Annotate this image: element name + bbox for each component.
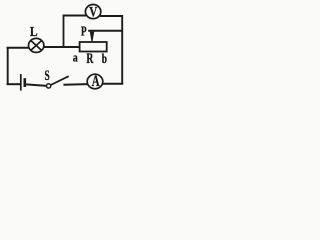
voltmeter V — [85, 5, 100, 19]
svg-text:S: S — [45, 67, 50, 84]
rheostat R box — [80, 42, 107, 52]
lamp L (circle with X) — [29, 38, 44, 52]
svg-text:P: P — [81, 24, 87, 39]
wire: switch contact to ammeter — [63, 83, 87, 86]
wire: voltmeter right lead — [100, 15, 123, 17]
svg-text:V: V — [89, 3, 98, 20]
wire: voltmeter left lead — [63, 15, 86, 17]
slider arrow on rheostat — [90, 32, 94, 42]
battery: long plate (positive) — [20, 74, 22, 91]
wire: slider P lead to right bus — [88, 30, 122, 32]
wire: left vertical — [7, 47, 9, 85]
switch S lever (open) — [51, 76, 69, 85]
wire: battery to switch pivot — [26, 84, 47, 86]
svg-text:R: R — [86, 50, 93, 66]
wire: ammeter to bottom right corner — [103, 83, 124, 85]
svg-text:a: a — [73, 52, 78, 65]
wire: junction vertical from lamp row up to voltmeter row — [63, 16, 65, 48]
wire: top-left lamp row left segment — [7, 47, 30, 49]
ammeter A — [87, 74, 103, 89]
wire: lamp row right segment to rheostat left terminal — [43, 46, 79, 48]
svg-text:A: A — [92, 72, 100, 90]
battery: short thick plate (negative) — [23, 78, 26, 87]
svg-text:b: b — [102, 52, 107, 67]
switch S pivot — [46, 84, 50, 88]
wire: right vertical bus — [121, 15, 123, 84]
svg-text:L: L — [30, 24, 38, 39]
wire: bottom left to battery — [7, 83, 21, 85]
